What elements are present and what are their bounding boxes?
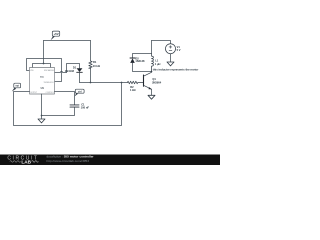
svg-text:out: out	[15, 85, 19, 88]
svg-text:100 nF: 100 nF	[81, 105, 90, 109]
flag +5V	[51, 31, 60, 40]
wire C1 bottom to gnd rail	[42, 108, 75, 116]
node gnd junction	[41, 115, 43, 117]
svg-text:DISCHARGE: DISCHARGE	[44, 69, 55, 72]
footer bar	[0, 155, 220, 166]
svg-text:this inductor represents the m: this inductor represents the motor	[153, 68, 199, 72]
wire R1 bottom	[90, 68, 92, 82]
wire +5V drop to 555 top loop	[43, 41, 45, 64]
ground (555)	[38, 119, 45, 123]
node collector junction	[151, 71, 153, 73]
svg-text:R1: R1	[93, 60, 97, 64]
diode D1 (1N4148, cathode down)	[77, 68, 83, 72]
svg-text:LAB: LAB	[21, 159, 31, 164]
svg-text:+5V: +5V	[53, 32, 58, 36]
flag ctrl (right)	[75, 89, 85, 96]
wire D2 bottom to collector	[133, 63, 152, 72]
capacitor C1	[70, 105, 79, 107]
ground (Q1)	[148, 95, 155, 99]
wire motor loop left drop	[133, 41, 152, 58]
wire TRG-THR outer loop	[27, 59, 62, 82]
logo sine wave	[10, 161, 21, 163]
wire out node rail D1/R1 to R2	[80, 82, 128, 84]
wire 555 top pin loop	[33, 64, 51, 68]
svg-text:10 kΩ: 10 kΩ	[93, 64, 100, 68]
svg-text:5 V: 5 V	[177, 48, 181, 52]
wire R1 top drop	[90, 41, 92, 62]
svg-text:2N3904: 2N3904	[152, 80, 162, 84]
resistor R1	[89, 61, 92, 68]
svg-text:OUTPUT: OUTPUT	[30, 92, 37, 94]
svg-text:1N4148: 1N4148	[65, 69, 75, 73]
svg-text:1N4148: 1N4148	[135, 59, 145, 63]
voltage source V1	[166, 44, 176, 54]
wire D1 bottom down to out node rail	[79, 72, 81, 82]
ground (V1)	[167, 62, 174, 66]
svg-text:THRESHOLD: THRESHOLD	[43, 82, 54, 84]
svg-text:1 μH: 1 μH	[155, 62, 161, 66]
node R1 bottom junction	[90, 82, 92, 84]
wire V1 bottom	[170, 54, 172, 62]
label U1 pin names	[30, 69, 55, 94]
svg-text:1 kΩ: 1 kΩ	[130, 88, 136, 92]
node OUT riser junction	[121, 82, 123, 84]
flag out (left)	[12, 83, 21, 91]
wire D1 branch up-and-over	[67, 64, 80, 73]
diode D2 (flyback, cathode up)	[130, 58, 135, 63]
node junction at +5V loop	[43, 63, 45, 65]
wire 555 GND stub	[41, 94, 43, 119]
wire +5V rail	[44, 40, 91, 42]
svg-text:CONTROL: CONTROL	[46, 92, 54, 94]
wire OUT long path to R2 riser	[14, 83, 122, 126]
inductor L1 (motor)	[152, 54, 154, 72]
svg-text:ctrl: ctrl	[78, 90, 82, 93]
wire V1 top rail	[152, 41, 171, 44]
svg-text:Q1: Q1	[152, 77, 156, 81]
svg-text:http://www.circuitlab.com/c8f5: http://www.circuitlab.com/c8f53	[47, 159, 90, 163]
wire DIS stub with hop over TRG loop	[55, 71, 67, 72]
wire CONTROL to C1	[55, 92, 75, 105]
resistor R2	[127, 81, 143, 84]
transistor Q1 2N3904	[144, 72, 152, 96]
IC U1 555 box	[30, 68, 55, 95]
